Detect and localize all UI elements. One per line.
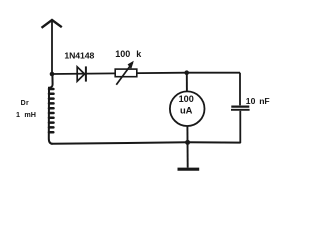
svg-text:1N4148: 1N4148 <box>64 50 94 60</box>
svg-text:Dr: Dr <box>21 100 30 107</box>
svg-text:100: 100 <box>179 94 194 104</box>
svg-text:100: 100 <box>115 49 130 59</box>
svg-text:1: 1 <box>16 110 20 119</box>
svg-text:mH: mH <box>24 110 36 119</box>
svg-text:k: k <box>136 49 142 59</box>
svg-text:nF: nF <box>259 96 270 106</box>
svg-text:uA: uA <box>180 105 193 116</box>
svg-text:10: 10 <box>246 96 256 106</box>
